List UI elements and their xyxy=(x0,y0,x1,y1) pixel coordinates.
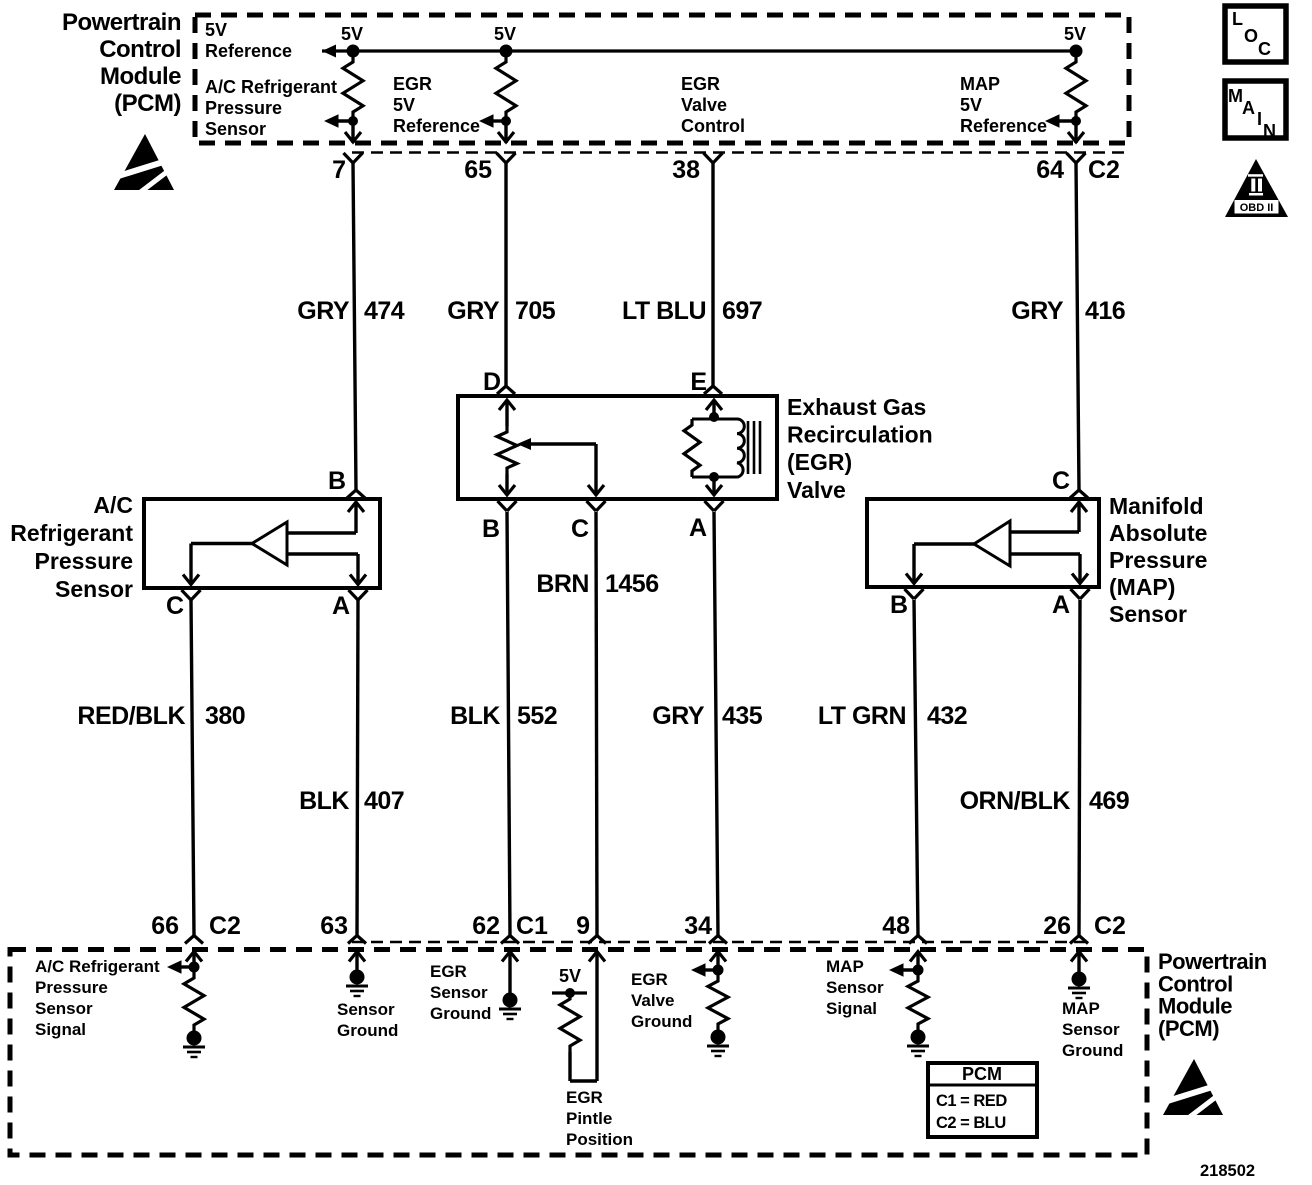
wire pintle resistor to pin 9 xyxy=(568,1052,571,1081)
svg-text:A/C: A/C xyxy=(93,492,133,518)
svg-text:Sensor: Sensor xyxy=(55,576,133,602)
svg-text:432: 432 xyxy=(927,702,967,730)
svg-text:705: 705 xyxy=(515,297,556,325)
arrow MAP 5V Reference xyxy=(1045,114,1060,128)
resistor pin 66 xyxy=(184,972,204,1031)
svg-text:GRY: GRY xyxy=(1011,297,1064,325)
svg-text:C1: C1 xyxy=(516,912,548,940)
svg-text:5V: 5V xyxy=(559,966,581,986)
5V supply bar xyxy=(552,991,587,994)
EGR pintle potentiometer input arrow xyxy=(499,400,515,410)
svg-text:48: 48 xyxy=(882,912,910,940)
svg-text:BRN: BRN xyxy=(536,570,589,598)
svg-text:Sensor: Sensor xyxy=(1062,1020,1120,1039)
svg-text:(PCM): (PCM) xyxy=(1158,1016,1219,1041)
svg-text:5V: 5V xyxy=(393,95,415,115)
svg-text:Valve: Valve xyxy=(631,991,675,1010)
svg-text:Valve: Valve xyxy=(681,95,727,115)
svg-text:5V: 5V xyxy=(960,95,982,115)
EGR solenoid top junction xyxy=(709,412,719,422)
wire ORN/BLK 469 (MAP A to pin 26) xyxy=(1079,600,1080,936)
wire LT GRN 432 (MAP B to pin 48) xyxy=(914,600,918,936)
svg-text:Reference: Reference xyxy=(960,116,1047,136)
A/C sensor wire to amp xyxy=(287,531,356,534)
svg-text:(PCM): (PCM) xyxy=(114,90,181,117)
svg-text:N: N xyxy=(1263,121,1276,141)
svg-text:B: B xyxy=(328,467,346,495)
svg-text:GRY: GRY xyxy=(297,297,350,325)
svg-text:Signal: Signal xyxy=(35,1020,86,1039)
junction pin 48 xyxy=(913,965,924,976)
svg-text:Refrigerant: Refrigerant xyxy=(10,520,133,546)
arrow 5V Reference xyxy=(322,45,336,58)
svg-text:Sensor: Sensor xyxy=(35,999,93,1018)
ground pin 62 xyxy=(503,993,518,1008)
svg-text:ORN/BLK: ORN/BLK xyxy=(960,787,1071,815)
EGR solenoid input arrow xyxy=(706,400,722,410)
svg-text:A: A xyxy=(1052,591,1070,619)
PCM bottom dashed box xyxy=(10,950,1147,1156)
arrow A/C signal xyxy=(167,960,182,974)
resistor pin 34 xyxy=(708,975,728,1030)
svg-text:Module: Module xyxy=(1158,994,1232,1019)
svg-text:Sensor: Sensor xyxy=(826,978,884,997)
EGR pot wiper arrow xyxy=(517,438,531,450)
svg-text:435: 435 xyxy=(722,702,763,730)
EGR solenoid bottom bar xyxy=(692,476,737,479)
svg-text:MAP: MAP xyxy=(826,957,864,976)
svg-text:66: 66 xyxy=(151,912,179,940)
junction R1 output xyxy=(348,116,358,126)
ground pin 48 xyxy=(911,1030,926,1045)
pin 66 input arrow xyxy=(186,952,202,962)
svg-text:EGR: EGR xyxy=(631,970,668,989)
EGR solenoid core lines xyxy=(747,421,750,474)
svg-text:9: 9 xyxy=(576,912,590,940)
svg-text:7: 7 xyxy=(332,156,346,184)
junction R3 output xyxy=(1071,116,1081,126)
svg-text:Signal: Signal xyxy=(826,999,877,1018)
svg-text:MAP: MAP xyxy=(960,74,1000,94)
ground pin 26 xyxy=(1072,972,1087,987)
svg-text:Control: Control xyxy=(99,36,181,63)
wire BRN 1456 (EGR C to pin 9) xyxy=(596,512,597,936)
svg-text:C: C xyxy=(166,592,184,620)
resistor MAP 5V reference (R3) xyxy=(1066,56,1086,118)
node 5V / wire 416 junction xyxy=(1070,45,1083,58)
wire R3 to pin 64 xyxy=(1074,121,1077,143)
svg-text:Ground: Ground xyxy=(337,1021,398,1040)
svg-text:34: 34 xyxy=(684,912,712,940)
EGR valve box xyxy=(458,396,777,499)
EGR solenoid resistance xyxy=(684,419,700,477)
svg-text:A: A xyxy=(689,514,707,542)
junction 5V supply xyxy=(565,988,575,998)
svg-text:Reference: Reference xyxy=(393,116,480,136)
op-amp MAP sensor xyxy=(974,521,1010,566)
svg-text:552: 552 xyxy=(517,702,557,730)
svg-text:Valve: Valve xyxy=(787,477,846,503)
svg-text:5V: 5V xyxy=(205,20,227,40)
MAP sensor lower input wire xyxy=(1010,552,1080,555)
svg-text:64: 64 xyxy=(1036,156,1064,184)
svg-text:62: 62 xyxy=(472,912,500,940)
MAP sensor input arrow xyxy=(1071,502,1087,512)
ESD sensitive device symbol (bottom right) xyxy=(1161,1059,1225,1119)
arrow MAP sensor signal xyxy=(889,963,904,977)
svg-text:Ground: Ground xyxy=(1062,1041,1123,1060)
svg-text:Pressure: Pressure xyxy=(35,978,108,997)
svg-text:GRY: GRY xyxy=(652,702,705,730)
EGR pintle potentiometer xyxy=(497,426,517,474)
svg-text:697: 697 xyxy=(722,297,762,325)
svg-text:Pintle: Pintle xyxy=(566,1109,612,1128)
wire GRY 435 (EGR A to pin 34) xyxy=(714,512,718,936)
svg-text:Pressure: Pressure xyxy=(35,548,133,574)
svg-text:Control: Control xyxy=(1158,971,1233,996)
svg-text:Sensor: Sensor xyxy=(430,983,488,1002)
svg-text:EGR: EGR xyxy=(393,74,432,94)
svg-text:380: 380 xyxy=(205,702,245,730)
svg-text:O: O xyxy=(1244,26,1258,46)
resistor pin 48 xyxy=(908,975,928,1030)
wire GRY 474 (pin 7 to A/C sensor B) xyxy=(353,163,356,490)
svg-text:RED/BLK: RED/BLK xyxy=(77,702,185,730)
svg-text:416: 416 xyxy=(1085,297,1125,325)
ground pin 63 (sensor ground) xyxy=(350,970,365,985)
node 5V / wire 705 junction xyxy=(500,45,513,58)
OBD II icon xyxy=(1225,159,1288,217)
svg-text:Reference: Reference xyxy=(205,41,292,61)
top connector boundary (thin dashed) xyxy=(352,151,1128,153)
wire RED/BLK 380 (A/C C to pin 66) xyxy=(191,600,194,936)
EGR solenoid lower lead xyxy=(712,477,715,495)
svg-text:Position: Position xyxy=(566,1130,633,1149)
svg-text:B: B xyxy=(890,591,908,619)
svg-text:Ground: Ground xyxy=(430,1004,491,1023)
wire GRY 416 (pin 64 to MAP C) xyxy=(1076,163,1079,490)
svg-text:218502: 218502 xyxy=(1200,1162,1255,1180)
svg-text:Ground: Ground xyxy=(631,1012,692,1031)
svg-text:A/C Refrigerant: A/C Refrigerant xyxy=(205,77,337,97)
svg-text:PCM: PCM xyxy=(962,1064,1002,1084)
svg-text:5V: 5V xyxy=(341,24,363,44)
ground pin 34 xyxy=(711,1030,726,1045)
svg-text:C: C xyxy=(1052,467,1070,495)
svg-text:C2: C2 xyxy=(1094,912,1126,940)
svg-text:Manifold: Manifold xyxy=(1109,493,1204,519)
svg-text:469: 469 xyxy=(1089,787,1129,815)
svg-text:Recirculation: Recirculation xyxy=(787,422,933,448)
svg-text:B: B xyxy=(482,515,500,543)
svg-text:Pressure: Pressure xyxy=(205,98,282,118)
svg-text:(EGR): (EGR) xyxy=(787,449,852,475)
wire BLK 407 (A/C A to pin 63) xyxy=(357,600,358,936)
svg-text:Pressure: Pressure xyxy=(1109,547,1207,573)
svg-text:Module: Module xyxy=(100,63,181,90)
svg-text:5V: 5V xyxy=(1064,24,1086,44)
svg-text:A: A xyxy=(1242,98,1255,118)
A/C sensor lower input wire xyxy=(287,552,358,555)
svg-text:C: C xyxy=(1258,39,1271,59)
wire LT BLU 697 (pin 38 to EGR E) xyxy=(711,163,714,386)
pin 63 input arrow xyxy=(349,952,365,962)
resistor EGR pintle position xyxy=(560,993,580,1052)
junction pin 66 xyxy=(189,962,200,973)
svg-text:A/C Refrigerant: A/C Refrigerant xyxy=(35,957,160,976)
svg-text:Control: Control xyxy=(681,116,745,136)
PCM top dashed box xyxy=(195,15,1129,143)
EGR solenoid coil xyxy=(737,419,744,477)
svg-text:GRY: GRY xyxy=(447,297,500,325)
MAIN icon xyxy=(1225,81,1286,141)
svg-text:Sensor: Sensor xyxy=(337,1000,395,1019)
EGR solenoid top bar xyxy=(692,418,737,421)
svg-text:63: 63 xyxy=(320,912,348,940)
EGR pot lower lead xyxy=(505,474,508,495)
svg-text:1456: 1456 xyxy=(605,570,659,598)
resistor A/C 5V reference (R1) xyxy=(343,56,363,118)
svg-text:OBD II: OBD II xyxy=(1240,202,1274,214)
svg-text:M: M xyxy=(1228,86,1243,106)
pin 62 input arrow xyxy=(502,952,518,962)
pin 48 input arrow xyxy=(910,952,926,962)
svg-text:I: I xyxy=(1257,109,1262,129)
junction R2 output xyxy=(501,116,511,126)
op-amp A/C sensor xyxy=(252,522,287,565)
svg-text:65: 65 xyxy=(464,156,492,184)
svg-text:L: L xyxy=(1232,9,1243,29)
node 5V / wire 474 junction xyxy=(347,45,360,58)
svg-text:C2 = BLU: C2 = BLU xyxy=(936,1114,1006,1132)
svg-text:Powertrain: Powertrain xyxy=(1158,949,1267,974)
svg-text:A: A xyxy=(332,592,350,620)
svg-text:Exhaust Gas: Exhaust Gas xyxy=(787,394,926,420)
svg-text:Sensor: Sensor xyxy=(205,119,266,139)
svg-text:C2: C2 xyxy=(209,912,241,940)
svg-text:C2: C2 xyxy=(1088,156,1120,184)
svg-text:Absolute: Absolute xyxy=(1109,520,1207,546)
pin 26 input arrow xyxy=(1071,952,1087,962)
svg-text:C: C xyxy=(571,515,589,543)
svg-text:EGR: EGR xyxy=(430,962,467,981)
wire GRY 705 (pin 65 to EGR D) xyxy=(504,163,507,386)
svg-text:EGR: EGR xyxy=(681,74,720,94)
arrow EGR valve ground xyxy=(691,963,706,977)
svg-text:LT BLU: LT BLU xyxy=(622,297,706,325)
A/C sensor input arrow xyxy=(348,502,364,512)
resistor EGR 5V reference (R2) xyxy=(496,56,516,118)
EGR wiper wire to pin C xyxy=(594,444,597,495)
svg-text:Sensor: Sensor xyxy=(1109,601,1187,627)
svg-text:26: 26 xyxy=(1043,912,1071,940)
wire BLK 552 (EGR B to pin 62) xyxy=(507,512,510,936)
ESD sensitive device symbol (top left) xyxy=(112,134,176,194)
MAP sensor wire to amp xyxy=(1010,530,1079,533)
wire R1 to pin 7 xyxy=(351,121,354,143)
MAP sensor output wire xyxy=(914,542,974,545)
svg-text:EGR: EGR xyxy=(566,1088,603,1107)
junction pin 34 xyxy=(713,965,724,976)
5V reference rail xyxy=(322,49,1076,52)
pin 34 input arrow xyxy=(710,952,726,962)
bottom connector boundary (thin dashed) xyxy=(352,941,1085,943)
svg-text:474: 474 xyxy=(364,297,405,325)
arrow A/C Refrigerant Pressure Sensor xyxy=(324,114,339,128)
wire R2 to pin 65 xyxy=(504,121,507,143)
ground pin 66 xyxy=(187,1031,202,1046)
svg-text:(MAP): (MAP) xyxy=(1109,574,1175,600)
PCM connector legend box xyxy=(928,1063,1037,1137)
svg-text:5V: 5V xyxy=(494,24,516,44)
svg-text:BLK: BLK xyxy=(450,702,500,730)
svg-text:MAP: MAP xyxy=(1062,999,1100,1018)
EGR solenoid bottom junction xyxy=(709,472,719,482)
svg-text:BLK: BLK xyxy=(299,787,349,815)
svg-text:38: 38 xyxy=(672,156,700,184)
A/C sensor output wire xyxy=(191,542,252,545)
MAP sensor box xyxy=(867,499,1099,587)
svg-text:407: 407 xyxy=(364,787,404,815)
svg-text:C1 = RED: C1 = RED xyxy=(936,1092,1007,1110)
arrow EGR 5V Reference xyxy=(479,114,494,128)
A/C Refrigerant Pressure Sensor box xyxy=(144,499,380,588)
svg-text:LT GRN: LT GRN xyxy=(818,702,906,730)
LOC icon xyxy=(1225,6,1286,62)
svg-text:Powertrain: Powertrain xyxy=(62,9,181,36)
